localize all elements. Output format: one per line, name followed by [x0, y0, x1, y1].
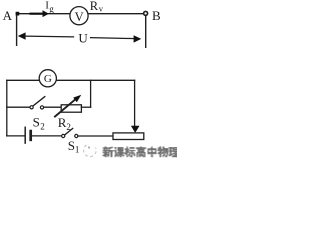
U dimension arrow right [134, 35, 142, 42]
svg-text:U: U [78, 31, 88, 46]
svg-text:v: v [99, 3, 104, 13]
svg-text:S: S [33, 115, 40, 130]
wire battery to S1 [32, 135, 61, 137]
label R2 [58, 115, 71, 132]
switch S2 blade [33, 97, 45, 106]
wire R2 to junction [81, 106, 90, 108]
switch S2 post left [30, 106, 33, 109]
watermark text (hand-drawn CJK strokes) [103, 146, 180, 157]
wire B drop [145, 15, 147, 47]
svg-text:g: g [49, 4, 54, 14]
node B terminal [144, 11, 148, 15]
wire middle branch left [7, 106, 30, 108]
watermark logo [84, 145, 97, 157]
wire right rail [134, 80, 136, 126]
wire top of lower loop [7, 79, 135, 81]
rheostat R2 box [61, 105, 81, 112]
rheostat R2 arrow [55, 99, 76, 117]
svg-text:R: R [90, 0, 99, 13]
wire S2 to R2 [44, 106, 62, 108]
voltmeter V [70, 7, 88, 25]
wire A to voltmeter [19, 13, 70, 15]
current arrow Ig [30, 10, 50, 17]
svg-text:V: V [75, 10, 84, 24]
wire bottom left [7, 135, 25, 137]
wire voltmeter to B [88, 13, 144, 15]
svg-text:G: G [44, 73, 52, 85]
switch S1 post left [62, 134, 65, 137]
svg-text:2: 2 [40, 121, 45, 131]
label S2 [33, 115, 45, 132]
svg-text:A: A [3, 8, 13, 23]
label Ig [45, 1, 54, 14]
svg-text:1: 1 [75, 144, 80, 154]
switch S2 post right [40, 106, 43, 109]
wire junction drop [90, 80, 92, 107]
label Rv [90, 0, 104, 13]
node A terminal [16, 12, 20, 16]
switch S1 blade [65, 128, 73, 135]
switch S1 post right [75, 134, 78, 137]
wire S1 to slide rheostat [78, 135, 113, 137]
galvanometer G [39, 70, 56, 87]
slider arrow onto rheostat [131, 126, 140, 133]
label S1 [68, 138, 80, 155]
U dimension line left segment [25, 35, 74, 38]
wire left rail [6, 80, 8, 136]
battery long plate [24, 127, 26, 143]
svg-text:B: B [152, 8, 161, 23]
wire A drop [16, 16, 18, 46]
battery short plate [29, 131, 32, 140]
slide rheostat box [113, 133, 144, 140]
U dimension line right segment [91, 38, 135, 39]
U dimension arrow left [18, 32, 26, 39]
